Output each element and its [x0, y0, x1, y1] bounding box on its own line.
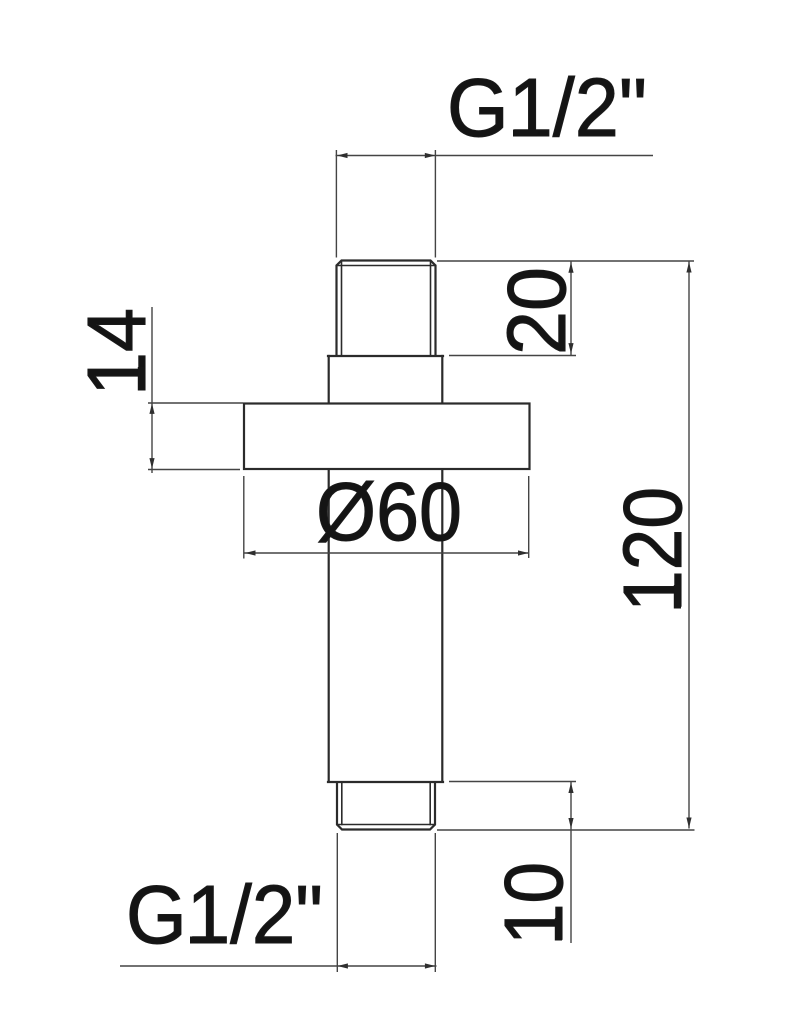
svg-text:G1/2": G1/2" [447, 61, 647, 154]
svg-text:20: 20 [490, 267, 583, 355]
svg-text:120: 120 [606, 487, 699, 612]
svg-text:G1/2": G1/2" [126, 868, 323, 961]
svg-text:10: 10 [487, 862, 580, 945]
svg-text:Ø60: Ø60 [316, 465, 462, 558]
svg-text:14: 14 [70, 308, 163, 396]
